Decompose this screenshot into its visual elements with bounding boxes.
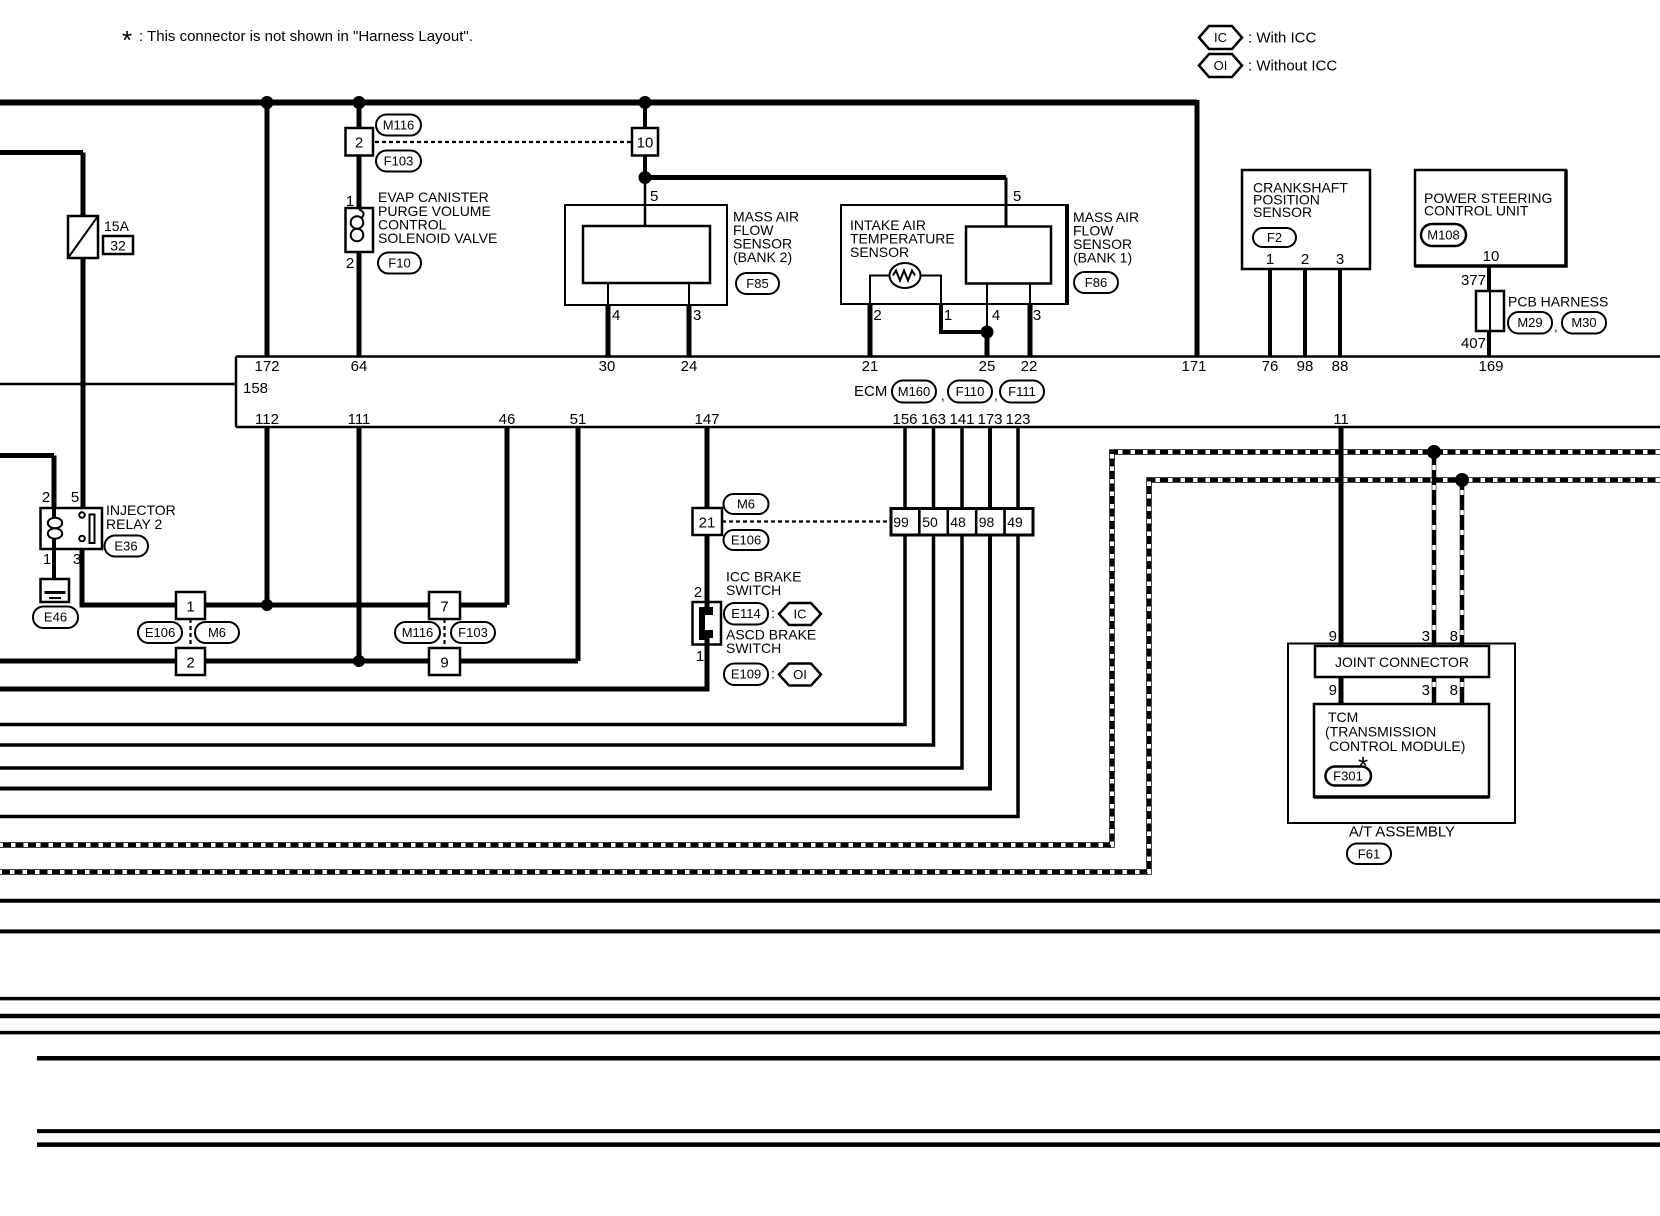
wire: crank sensor pin 1 to ECM 76 <box>1268 269 1272 357</box>
svg-text:173: 173 <box>977 411 1002 428</box>
svg-text:1: 1 <box>43 551 51 568</box>
svg-text:,: , <box>941 388 945 403</box>
connector box 2 lower <box>176 648 205 675</box>
svg-text:88: 88 <box>1332 358 1349 375</box>
legend OI hexagon : Without ICC <box>1199 54 1337 77</box>
label: MASS AIR FLOW SENSOR (BANK 1) <box>1073 209 1139 266</box>
svg-text:98: 98 <box>1297 358 1314 375</box>
svg-text:163: 163 <box>921 411 946 428</box>
connector box 1 (E106/M6) <box>176 592 205 619</box>
ICC brake switch E114 <box>693 569 822 666</box>
svg-text:F85: F85 <box>746 276 768 291</box>
node: dashed junction at 1434,452 <box>1427 445 1441 459</box>
label: INTAKE AIR TEMPERATURE SENSOR <box>850 217 955 260</box>
shielded wire pair (dashed) upper run <box>0 452 1660 845</box>
wire: MAF bank1 pin 3 to ECM 22 <box>1029 284 1031 305</box>
svg-text:50: 50 <box>922 514 938 530</box>
svg-text:(BANK 2): (BANK 2) <box>733 249 792 265</box>
svg-text:141: 141 <box>949 411 974 428</box>
svg-text:1: 1 <box>696 648 704 665</box>
svg-text:5: 5 <box>650 188 658 205</box>
svg-text:SWITCH: SWITCH <box>726 582 781 598</box>
svg-text:158: 158 <box>243 380 268 397</box>
svg-text:9: 9 <box>1329 682 1337 699</box>
svg-text:M116: M116 <box>402 625 434 640</box>
IAT thermistor element <box>890 263 921 288</box>
svg-text:F2: F2 <box>1267 230 1282 245</box>
connector M116 <box>376 115 421 136</box>
svg-text:46: 46 <box>499 411 516 428</box>
dashed connector link box2 to box10 <box>375 141 631 143</box>
power steering control unit M108 <box>1415 170 1566 266</box>
svg-text:M6: M6 <box>737 497 755 512</box>
connector M6 (21) <box>724 494 769 514</box>
svg-text:M160: M160 <box>898 384 931 399</box>
svg-text:1: 1 <box>944 307 952 324</box>
connector box 21 (M6/E106) <box>693 508 723 535</box>
svg-text:M29: M29 <box>1517 315 1542 330</box>
label: MASS AIR FLOW SENSOR (BANK 2) <box>733 209 799 266</box>
svg-text:,: , <box>994 388 998 403</box>
svg-text:2: 2 <box>186 655 194 672</box>
wire: fused feed to injector relay pin 5 <box>0 150 83 155</box>
wire: box 21 to ICC brake switch <box>705 535 710 602</box>
wire: ECM 46 down to relay line corner <box>505 427 510 605</box>
svg-text:3: 3 <box>1422 682 1430 699</box>
svg-text:SWITCH: SWITCH <box>726 640 781 656</box>
wire: bus branch down through box 10 to node <box>643 103 647 178</box>
svg-text:CONTROL MODULE): CONTROL MODULE) <box>1329 738 1465 754</box>
svg-text:5: 5 <box>71 489 79 506</box>
joint connector outer box (A/T assembly) <box>1288 644 1515 824</box>
svg-text:48: 48 <box>950 514 966 530</box>
wire: ECM 112 down to relay line <box>265 427 270 605</box>
connector M116 (mid) <box>395 622 440 643</box>
evap solenoid valve F10 <box>346 193 374 272</box>
ECM box <box>236 357 1660 428</box>
svg-text:76: 76 <box>1262 358 1279 375</box>
svg-text:172: 172 <box>254 358 279 375</box>
svg-text:M116: M116 <box>383 118 415 133</box>
wire: PSC pin 10 through PCB harness to ECM 169 <box>1487 266 1491 357</box>
joint connector pin labels bottom <box>1329 682 1458 699</box>
shielded wire pair (dashed) lower run <box>0 480 1660 872</box>
wire: ECM 123 <box>0 427 1018 817</box>
node: junction 112 wire and relay line <box>261 599 273 611</box>
wire: node down to MAF bank2 pin 5 <box>644 178 647 227</box>
svg-text:OI: OI <box>1214 58 1228 73</box>
svg-text:21: 21 <box>699 515 716 532</box>
svg-text:5: 5 <box>1013 188 1021 205</box>
svg-text:51: 51 <box>570 411 587 428</box>
wire: ECM 163 <box>0 427 934 745</box>
svg-text:24: 24 <box>681 358 698 375</box>
svg-text:E109: E109 <box>731 667 761 682</box>
svg-text:2: 2 <box>873 307 881 324</box>
wire: IAT pin 2 to ECM 21 <box>870 276 890 305</box>
svg-text:F10: F10 <box>388 256 410 271</box>
wire: main power bus to ECM pin 171 <box>0 100 1197 106</box>
svg-text:E36: E36 <box>114 539 137 554</box>
svg-text:F61: F61 <box>1358 847 1380 862</box>
wire: off-page line 1131 <box>37 1129 1660 1133</box>
svg-text:407: 407 <box>1461 335 1486 352</box>
svg-text:JOINT CONNECTOR: JOINT CONNECTOR <box>1335 654 1469 670</box>
wire: ECM 11 to joint connector pin 9 <box>1339 427 1344 646</box>
injector relay 2 E36 <box>41 489 176 568</box>
wire: off-page line 1016 <box>0 1014 1660 1019</box>
svg-text:22: 22 <box>1021 358 1038 375</box>
svg-text:64: 64 <box>351 358 368 375</box>
wire: MAF bank1 pin 4 to ECM 25 <box>986 284 988 333</box>
svg-text:PCB HARNESS: PCB HARNESS <box>1508 294 1608 310</box>
svg-text:171: 171 <box>1181 358 1206 375</box>
ASCD brake switch E109 <box>724 627 821 686</box>
mass air flow sensor bank2 F85 <box>565 188 727 357</box>
svg-text:147: 147 <box>694 411 719 428</box>
svg-text:F103: F103 <box>458 625 488 640</box>
wire: off-page line 931 <box>0 929 1660 933</box>
svg-text::: : <box>771 666 775 682</box>
svg-text:99: 99 <box>893 514 909 530</box>
svg-text:8: 8 <box>1450 628 1458 645</box>
svg-text:111: 111 <box>348 411 371 428</box>
wire: relay pin 3 line to ECM 46 <box>82 549 507 605</box>
svg-text:21: 21 <box>862 358 879 375</box>
ECM bottom pin numbers <box>255 411 1349 428</box>
wire: off-page line 1058 <box>37 1056 1660 1061</box>
wire: line 661 from left edge to ECM 51 <box>0 659 578 664</box>
connector box 9 <box>429 648 460 675</box>
svg-text:4: 4 <box>992 307 1000 324</box>
svg-text:3: 3 <box>73 551 81 568</box>
svg-text:156: 156 <box>892 411 917 428</box>
node: junction 111 wire and line 661 <box>353 655 365 667</box>
svg-text:98: 98 <box>979 514 995 530</box>
wire: off-page line 900 <box>0 899 1660 903</box>
svg-text:CONTROL UNIT: CONTROL UNIT <box>1424 203 1529 219</box>
svg-text:M30: M30 <box>1571 315 1596 330</box>
intake air temperature sensor box with MAF bank1 <box>841 205 1068 304</box>
svg-text:15A: 15A <box>104 218 130 234</box>
svg-text:2: 2 <box>42 489 50 506</box>
connector F86 <box>1074 272 1118 293</box>
connector F61 <box>1347 844 1391 865</box>
wire: off-page line 1032 <box>0 1031 1660 1035</box>
wire: bus branch to ECM pin 172 <box>265 103 270 357</box>
svg-text::: : <box>771 605 775 621</box>
svg-text:M108: M108 <box>1427 228 1460 243</box>
wire: IAT pin 1 to node with MAF pin 4 <box>920 276 941 305</box>
svg-text:SOLENOID VALVE: SOLENOID VALVE <box>378 230 497 246</box>
svg-text:ECM: ECM <box>854 383 887 400</box>
dashed branch to joint connector pin 3 <box>1432 452 1437 646</box>
connector F85 <box>736 273 779 294</box>
node: bus junction at 359 <box>353 96 366 109</box>
connector boxes 99 50 48 98 49 <box>891 509 1033 536</box>
svg-text:3: 3 <box>1336 251 1344 268</box>
label: EVAP CANISTER PURGE VOLUME CONTROL SOLENOID VALVE <box>378 189 497 246</box>
svg-text:: Without ICC: : Without ICC <box>1248 58 1337 75</box>
svg-text:7: 7 <box>440 599 448 616</box>
svg-text:1: 1 <box>186 599 194 616</box>
wire: off-page line 998 <box>0 997 1660 1001</box>
svg-text:3: 3 <box>1033 307 1041 324</box>
node: dashed junction at 1462,480 <box>1455 473 1469 487</box>
svg-text:2: 2 <box>355 135 363 152</box>
svg-text:A/T ASSEMBLY: A/T ASSEMBLY <box>1349 824 1455 841</box>
ECM top pin numbers <box>254 358 1503 375</box>
svg-text:30: 30 <box>599 358 616 375</box>
svg-text:IC: IC <box>794 607 807 622</box>
wire: ECM 147 down to box 21 <box>705 427 710 508</box>
wire: bus branch through EVAP solenoid to ECM pin 64 <box>357 103 362 357</box>
svg-text:F110: F110 <box>956 384 985 399</box>
svg-text:25: 25 <box>979 358 996 375</box>
connector box 10 <box>632 128 658 156</box>
dashed TCM pin 3 stub <box>1432 677 1437 704</box>
svg-text:F103: F103 <box>384 154 414 169</box>
note: asterisk footnote <box>122 25 473 55</box>
svg-text:M6: M6 <box>208 625 226 640</box>
svg-text:123: 123 <box>1005 411 1030 428</box>
svg-text:IC: IC <box>1214 30 1227 45</box>
svg-text:SENSOR: SENSOR <box>850 244 909 260</box>
wire: brake switch pin 1 line to left edge <box>0 640 707 689</box>
svg-text:OI: OI <box>793 667 807 682</box>
svg-text:*: * <box>122 25 132 55</box>
ground E46 <box>33 549 78 628</box>
svg-text:3: 3 <box>693 307 701 324</box>
node: bus junction at 267 <box>261 96 274 109</box>
svg-text:2: 2 <box>346 255 354 272</box>
wire: ECM 111 down to line 661 <box>357 427 362 661</box>
svg-text:: With ICC: : With ICC <box>1248 30 1317 47</box>
wire: joint connector to TCM pin 9 <box>1339 677 1344 704</box>
node: junction at 645,177.5 <box>639 171 652 184</box>
joint connector pin labels top <box>1329 628 1458 645</box>
svg-text:E106: E106 <box>731 533 761 548</box>
wire: crank sensor pin 3 to ECM 88 <box>1338 269 1342 357</box>
svg-text:E106: E106 <box>145 625 175 640</box>
wire: crank sensor pin 2 to ECM 98 <box>1303 269 1307 357</box>
connector F10 <box>378 253 421 274</box>
svg-text:9: 9 <box>440 655 448 672</box>
svg-text:(BANK 1): (BANK 1) <box>1073 250 1132 266</box>
svg-text:RELAY 2: RELAY 2 <box>106 516 163 532</box>
svg-text:10: 10 <box>637 135 654 152</box>
connector M6 (left) <box>195 622 239 643</box>
svg-text:11: 11 <box>1333 411 1349 428</box>
wire: off-page line 1144 <box>37 1142 1660 1147</box>
connector F103 <box>376 151 421 172</box>
wire: ECM 156 <box>0 427 905 725</box>
crankshaft position sensor F2 <box>1242 170 1370 269</box>
svg-text:32: 32 <box>110 238 126 254</box>
node: pins 1/4 junction <box>981 326 994 339</box>
dashed TCM pin 8 stub <box>1460 677 1465 704</box>
joint connector label box <box>1315 646 1489 677</box>
wire: node to MAF bank1 pin 5 <box>645 175 1006 180</box>
dashed link box7-box9 <box>443 619 445 648</box>
svg-text:377: 377 <box>1461 272 1486 289</box>
svg-text:2: 2 <box>1301 251 1309 268</box>
wire: feed to injector relay pin 2 <box>0 453 54 458</box>
wire: thin line to ECM left edge <box>0 383 236 386</box>
svg-text:SENSOR: SENSOR <box>1253 204 1312 220</box>
connector F103 (mid) <box>451 622 495 643</box>
svg-text:112: 112 <box>255 411 279 428</box>
svg-text:9: 9 <box>1329 628 1337 645</box>
svg-text:F301: F301 <box>1333 769 1363 784</box>
svg-text:2: 2 <box>694 584 702 601</box>
svg-text:4: 4 <box>612 307 620 324</box>
svg-text:8: 8 <box>1450 682 1458 699</box>
svg-text:49: 49 <box>1007 514 1023 530</box>
svg-text:3: 3 <box>1422 628 1430 645</box>
legend IC hexagon : With ICC <box>1199 26 1317 49</box>
svg-text:1: 1 <box>346 193 354 210</box>
dashed link box21 to box99 <box>722 520 891 522</box>
svg-text:F86: F86 <box>1085 275 1107 290</box>
svg-text:E46: E46 <box>44 610 67 625</box>
MAF bank1 element box <box>966 227 1051 284</box>
node: bus junction at 645 <box>639 96 652 109</box>
svg-text:F111: F111 <box>1008 384 1036 399</box>
dashed branch to joint connector pin 8 <box>1460 480 1465 646</box>
svg-text:1: 1 <box>1266 251 1274 268</box>
connector box 2 (M116/F103) <box>346 128 374 156</box>
svg-text:10: 10 <box>1483 248 1500 265</box>
svg-text:169: 169 <box>1478 358 1503 375</box>
wire: ECM 141 <box>0 427 962 768</box>
fuse 15A 32 <box>68 216 133 258</box>
svg-text:E114: E114 <box>731 606 760 621</box>
svg-text:: This connector is not shown: : This connector is not shown in "Harnes… <box>139 28 473 45</box>
TCM (transmission control module) F301 <box>1314 704 1489 797</box>
dashed link box1-box2 <box>189 619 191 648</box>
connector E106 (left) <box>138 622 182 643</box>
svg-text:,: , <box>1554 319 1558 334</box>
wire: ECM 173 <box>0 427 990 789</box>
PCB harness connector M29 M30 <box>1476 291 1608 334</box>
wire: ECM 51 down to line 661 corner <box>576 427 581 661</box>
connector E106 (21) <box>724 530 769 550</box>
connector box 7 (M116/F103) <box>429 592 460 619</box>
